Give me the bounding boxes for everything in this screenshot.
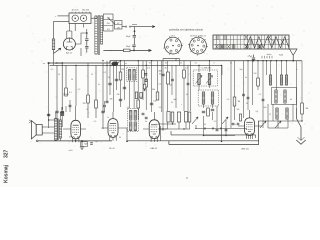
svg-text:5n: 5n bbox=[145, 121, 147, 123]
left frame vertical bbox=[160, 126, 162, 141]
junction dots left bbox=[56, 62, 57, 63]
wire selector right to transformer bbox=[91, 16, 97, 18]
dial scale bbox=[213, 35, 289, 49]
svg-text:⇅42: ⇅42 bbox=[279, 53, 284, 56]
svg-text:5n: 5n bbox=[98, 84, 100, 86]
mixer comps bbox=[237, 123, 240, 125]
secondary terminal box bbox=[104, 14, 114, 31]
cap rows near 145 bbox=[144, 73, 147, 75]
svg-text:1M: 1M bbox=[238, 101, 241, 103]
svg-text:5k: 5k bbox=[108, 77, 110, 79]
osc coil box bbox=[272, 88, 297, 105]
HT caps beside V5 bbox=[86, 33, 88, 38]
IFT2 top wires bbox=[199, 61, 213, 108]
right verticals bbox=[244, 61, 303, 118]
svg-text:0,5: 0,5 bbox=[51, 69, 54, 71]
V2 wires bbox=[102, 112, 128, 141]
selector plug 2 bbox=[80, 15, 86, 21]
comps 162-190 upper bbox=[167, 72, 170, 84]
V3 wires bbox=[143, 112, 167, 129]
tube V4 converter bbox=[245, 118, 255, 136]
svg-text:30: 30 bbox=[159, 74, 161, 76]
svg-text:a-10: a-10 bbox=[68, 150, 73, 152]
svg-text:1n: 1n bbox=[234, 124, 236, 126]
svg-text:0,1: 0,1 bbox=[195, 63, 198, 65]
antenna series cap bbox=[253, 55, 255, 58]
mid vertical wires bbox=[107, 61, 162, 120]
mains wire upper bbox=[58, 15, 70, 17]
svg-text:0,3: 0,3 bbox=[227, 99, 230, 101]
svg-text:327: 327 bbox=[4, 149, 10, 158]
padder arrows bbox=[260, 121, 281, 128]
bottom wire mid bbox=[127, 140, 259, 142]
switch contacts bbox=[125, 26, 126, 27]
svg-text:0,2: 0,2 bbox=[78, 89, 81, 91]
B+ wire upper bbox=[135, 26, 156, 28]
V1 wires bbox=[63, 106, 86, 129]
pot arrow 2 bbox=[222, 117, 228, 124]
power transformer core bbox=[98, 15, 99, 55]
svg-text:3k: 3k bbox=[186, 94, 188, 96]
svg-text:podnožja cevi gledana odozdo: podnožja cevi gledana odozdo bbox=[169, 29, 203, 32]
mid-right verticals bbox=[163, 59, 191, 131]
resistor right edge bbox=[301, 103, 304, 114]
right bottom wires bbox=[263, 104, 293, 128]
long vertical right of IFT2 bbox=[221, 65, 223, 141]
socket diagram 1 bbox=[165, 37, 182, 54]
B+ wire lower with arrow bbox=[103, 49, 151, 51]
resistor R50 bbox=[124, 49, 131, 52]
speaker bbox=[36, 125, 42, 136]
IFT2 box upper bbox=[193, 70, 217, 86]
svg-text:EL 41: EL 41 bbox=[109, 148, 115, 150]
svg-text:0,5: 0,5 bbox=[185, 68, 188, 70]
svg-text:50: 50 bbox=[119, 137, 121, 139]
ground under V1 bbox=[81, 141, 83, 146]
small box 144 bbox=[143, 84, 145, 89]
right comps bbox=[242, 94, 245, 96]
svg-text:15: 15 bbox=[269, 114, 271, 116]
svg-text:5: 5 bbox=[214, 63, 215, 65]
svg-text:0,1: 0,1 bbox=[104, 72, 107, 74]
svg-text:2M: 2M bbox=[117, 94, 120, 96]
svg-text:50k: 50k bbox=[237, 109, 240, 111]
scan speckle bbox=[28, 5, 313, 153]
pot arrow 1 bbox=[192, 117, 198, 124]
svg-text:∫1500: ∫1500 bbox=[62, 93, 69, 96]
stray mark bbox=[186, 177, 187, 178]
comps under IFT2 bbox=[202, 111, 205, 113]
tube V3 bbox=[149, 120, 159, 139]
phono input arrow bbox=[297, 108, 302, 141]
svg-text:50μF: 50μF bbox=[126, 46, 131, 48]
svg-text:1M: 1M bbox=[121, 69, 124, 71]
wires electrolytics to bottom bbox=[168, 122, 190, 129]
svg-text:skala: skala bbox=[267, 54, 273, 56]
AVC resistor col bbox=[233, 97, 236, 106]
switch S2 arrow bbox=[54, 48, 61, 53]
coil top connections bbox=[266, 60, 267, 61]
svg-text:100: 100 bbox=[153, 101, 156, 103]
selector plug 1 bbox=[72, 15, 78, 21]
resistor R12 bbox=[87, 95, 90, 103]
wire choke to bus bbox=[53, 54, 55, 64]
resistor R13 bbox=[95, 100, 98, 108]
wires V1 grid bbox=[62, 100, 70, 127]
filter cap C51 bbox=[132, 45, 135, 47]
V5 pin wires bbox=[67, 31, 72, 38]
electrolytic box bottom bbox=[81, 142, 88, 147]
svg-text:1M: 1M bbox=[306, 108, 309, 110]
bus segment C bbox=[163, 58, 180, 60]
left vertical wires bbox=[49, 63, 103, 129]
power transformer secondary winding bbox=[101, 16, 103, 44]
V4 wires bbox=[238, 110, 262, 126]
svg-text:0,5: 0,5 bbox=[94, 121, 97, 123]
bottom nested line bbox=[171, 131, 256, 138]
svg-text:EAF 41: EAF 41 bbox=[151, 147, 159, 150]
svg-text:160 220: 160 220 bbox=[82, 10, 90, 12]
tube V2 bbox=[108, 119, 118, 138]
caps between tubes bbox=[145, 117, 148, 119]
svg-text:40: 40 bbox=[290, 99, 292, 101]
OT top wires bbox=[56, 112, 61, 141]
svg-text:0,5: 0,5 bbox=[259, 94, 262, 96]
bottom wire left bbox=[36, 140, 38, 142]
output tube V1 bbox=[71, 120, 81, 139]
svg-text:70: 70 bbox=[86, 109, 88, 111]
svg-text:+: + bbox=[181, 104, 183, 106]
mid junction dots bbox=[113, 65, 115, 67]
socket diagram 2 bbox=[190, 37, 207, 54]
cap C12 bbox=[61, 108, 63, 111]
svg-text:0,1: 0,1 bbox=[69, 92, 72, 94]
svg-text:50: 50 bbox=[71, 79, 73, 81]
voltage selector box bbox=[69, 13, 91, 24]
svg-text:6k: 6k bbox=[204, 124, 206, 126]
svg-text:12k: 12k bbox=[82, 103, 85, 105]
svg-text:400: 400 bbox=[158, 71, 161, 73]
mid components r2 bbox=[106, 101, 109, 103]
svg-text:0,5: 0,5 bbox=[159, 107, 162, 109]
svg-text:290: 290 bbox=[107, 23, 110, 25]
svg-text:zv: zv bbox=[125, 63, 127, 65]
svg-text:10: 10 bbox=[91, 74, 93, 76]
svg-text:30: 30 bbox=[149, 63, 151, 65]
svg-text:a: a bbox=[297, 69, 298, 71]
svg-text:1W: 1W bbox=[117, 27, 120, 29]
bus wire A bbox=[49, 61, 303, 63]
svg-text:1n: 1n bbox=[107, 117, 109, 119]
bottom frame line bbox=[169, 121, 259, 145]
IFT1 lower bbox=[128, 109, 139, 132]
aux terminal box bbox=[115, 21, 123, 30]
svg-text:25k: 25k bbox=[169, 85, 172, 87]
lower coil pair bbox=[276, 108, 278, 119]
mid components r1 bbox=[119, 72, 122, 80]
svg-text:10k: 10k bbox=[109, 99, 112, 101]
cap C11 bbox=[55, 111, 58, 113]
volume pot knob bbox=[111, 62, 118, 66]
svg-text:50k: 50k bbox=[152, 89, 155, 91]
power transformer TR1 primary winding bbox=[95, 16, 98, 54]
dial dark cells bbox=[223, 44, 226, 49]
svg-text:50μF: 50μF bbox=[126, 36, 131, 38]
electrolytic pair 1 bbox=[167, 112, 170, 123]
mains choke coil bbox=[52, 39, 55, 50]
bus wire B bbox=[50, 64, 222, 66]
tick comb bbox=[262, 56, 272, 59]
svg-text:100: 100 bbox=[254, 73, 257, 75]
band switch row bbox=[195, 128, 247, 130]
svg-text:0,1: 0,1 bbox=[127, 107, 130, 109]
resistors near 136-141 bbox=[135, 92, 137, 99]
grid cap V2 bbox=[103, 105, 106, 107]
svg-text:2k: 2k bbox=[58, 74, 60, 76]
svg-text:40: 40 bbox=[164, 68, 166, 70]
svg-text:2k: 2k bbox=[246, 103, 248, 105]
svg-text:110 125: 110 125 bbox=[71, 10, 79, 12]
svg-text:Kosmaj: Kosmaj bbox=[4, 164, 10, 183]
svg-text:AZ 11: AZ 11 bbox=[66, 52, 72, 55]
IFT1 upper bbox=[127, 68, 137, 82]
electrolytic pair 3 bbox=[184, 112, 187, 123]
svg-text:0,1: 0,1 bbox=[159, 84, 162, 86]
svg-text:zv. PU: zv. PU bbox=[55, 63, 61, 65]
svg-text:6,3: 6,3 bbox=[107, 29, 110, 31]
V5 heater connections bbox=[67, 24, 72, 32]
svg-text:~: ~ bbox=[55, 14, 57, 18]
field coil link bbox=[49, 119, 56, 121]
svg-text:2k: 2k bbox=[180, 63, 182, 65]
svg-text:300: 300 bbox=[139, 97, 142, 99]
antenna coil set bbox=[269, 75, 271, 85]
blob cap C13 bbox=[61, 112, 64, 116]
svg-text:25: 25 bbox=[230, 63, 232, 65]
svg-text:30: 30 bbox=[171, 102, 173, 104]
wire V5 anode bbox=[75, 24, 87, 57]
speaker wires bbox=[42, 127, 54, 133]
svg-text:0,2: 0,2 bbox=[214, 121, 217, 123]
svg-text:50p: 50p bbox=[240, 69, 243, 71]
svg-text:zv.: zv. bbox=[43, 63, 46, 65]
svg-text:3n: 3n bbox=[245, 77, 247, 79]
svg-text:4μF: 4μF bbox=[173, 99, 177, 101]
mains wire lower bbox=[54, 22, 70, 39]
svg-text:25: 25 bbox=[69, 137, 71, 139]
wires under IFT2 bbox=[204, 61, 236, 136]
IFT2 box lower bbox=[198, 90, 218, 106]
svg-text:0,1: 0,1 bbox=[147, 68, 150, 70]
resistor R11 bbox=[65, 88, 68, 96]
right bottom horizontals bbox=[258, 121, 302, 128]
filter cap C50 bbox=[134, 31, 136, 35]
antenna bbox=[290, 49, 298, 61]
electrolytic 2 bbox=[177, 112, 180, 122]
svg-text:50: 50 bbox=[165, 63, 167, 65]
output transformer bbox=[55, 119, 58, 141]
svg-text:(EM 11): (EM 11) bbox=[241, 148, 249, 150]
svg-text:8μF: 8μF bbox=[84, 143, 88, 145]
selector ticks bbox=[72, 12, 90, 13]
rectifier tube V5 bbox=[63, 38, 75, 50]
switch S1 bbox=[108, 18, 115, 24]
